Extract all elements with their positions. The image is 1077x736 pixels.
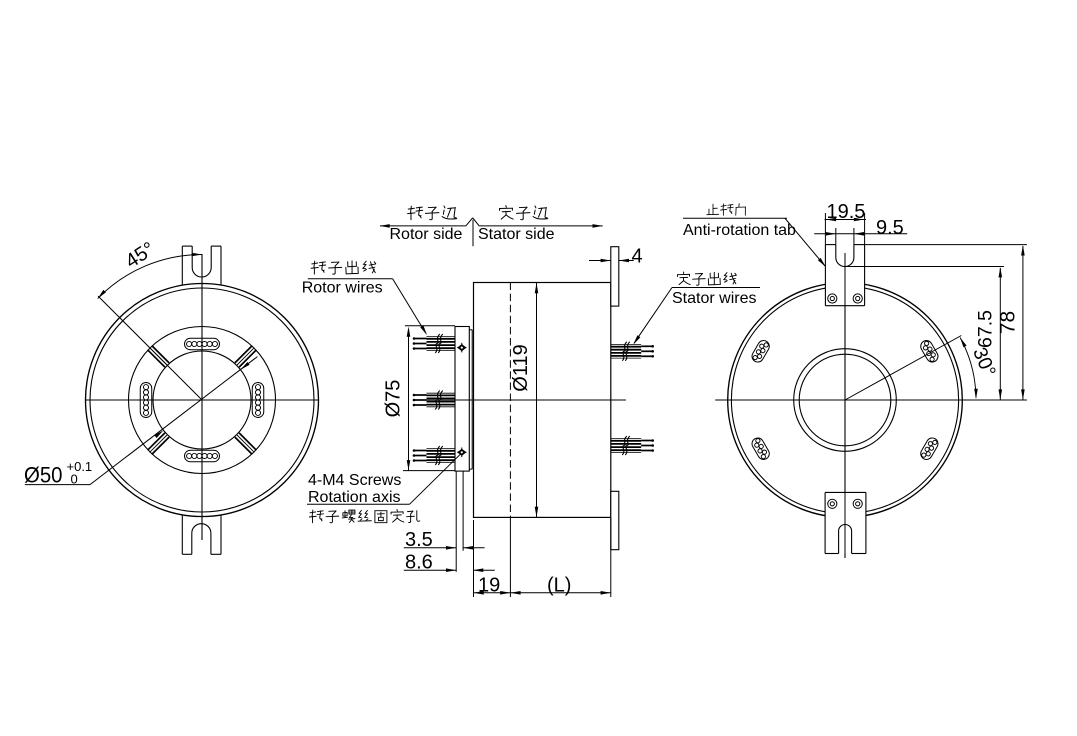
rotor-view wire slot right xyxy=(252,383,264,418)
rotor-view bore circle Ø50 xyxy=(153,351,251,449)
rotor-view wire slot left xyxy=(140,383,152,418)
svg-text:(L): (L) xyxy=(547,575,571,597)
rotor wire bundle top xyxy=(413,334,455,353)
svg-text:30°: 30° xyxy=(968,344,1000,380)
stator-view wire slot at 210 deg xyxy=(750,436,771,462)
stator-view bore circle inner xyxy=(799,354,891,446)
svg-text:3.5: 3.5 xyxy=(405,529,433,551)
svg-text:Ø50: Ø50 xyxy=(24,463,63,488)
rotor-view outer circle inner edge xyxy=(90,288,314,512)
dimension 9.5 xyxy=(814,228,907,245)
M4 screw symbol lower xyxy=(457,448,466,458)
svg-text:4-M4 Screws: 4-M4 Screws xyxy=(308,472,401,489)
dimension (L) xyxy=(510,592,610,594)
rotor-view M4 screw slot marks at 315 deg xyxy=(235,433,257,455)
svg-text:Rotor wires: Rotor wires xyxy=(302,279,383,296)
svg-text:0: 0 xyxy=(71,472,78,487)
rotor-view vertical centerline xyxy=(201,254,203,540)
section-view stator body Ø119 xyxy=(474,283,611,518)
rotor-view wire slot top xyxy=(185,338,220,350)
dimension Ø75 line xyxy=(408,329,410,471)
dimension Ø75 extension lines xyxy=(403,326,455,471)
stator-view anti-rotation tab bottom xyxy=(825,492,866,558)
section-view anti-rotation tab top xyxy=(611,247,619,306)
dimension 30deg radial line xyxy=(845,336,961,401)
dimension 8.6 xyxy=(404,569,495,571)
svg-text:Stator side: Stator side xyxy=(478,226,555,243)
M4 screw symbol upper xyxy=(457,343,466,353)
svg-text:9.5: 9.5 xyxy=(876,217,904,239)
label stator-wires chinese xyxy=(678,272,737,285)
section-view bore dashed line xyxy=(509,283,511,518)
dimension 45deg radial line xyxy=(98,296,202,400)
svg-text:Ø119: Ø119 xyxy=(510,344,532,391)
rotor-view horizontal centerline xyxy=(86,399,319,401)
svg-text:Rotation axis: Rotation axis xyxy=(308,489,401,506)
stator-view vertical centerline xyxy=(844,253,846,558)
rotor-view bottom mounting tab xyxy=(182,515,221,555)
rotor-view rotor flange circle Ø75 xyxy=(129,327,276,474)
rotor-view M4 screw slot marks at 45 deg xyxy=(235,346,257,368)
dimension 67.5 xyxy=(846,267,1004,401)
stator-view wire slot at 30 deg xyxy=(919,338,940,364)
stator-view wire slot at 150 deg xyxy=(750,338,771,364)
stator-view horizontal centerline xyxy=(715,399,1027,401)
rotor-view wire slot bottom xyxy=(185,450,220,462)
svg-text:19.5: 19.5 xyxy=(827,201,866,223)
svg-text:Anti-rotation tab: Anti-rotation tab xyxy=(683,222,796,239)
svg-text:19: 19 xyxy=(478,575,500,597)
svg-text:Ø75: Ø75 xyxy=(383,380,405,418)
dimension 78 xyxy=(865,245,1027,400)
stator-view bore circle outer xyxy=(794,349,897,452)
section-view spacer plate xyxy=(469,330,472,469)
svg-text:Rotor side: Rotor side xyxy=(390,226,463,243)
stator-view wire slot at 330 deg xyxy=(919,436,940,462)
leader stator wires xyxy=(634,288,672,344)
dimension Ø50 leader line xyxy=(90,357,257,485)
leader rotation axis xyxy=(410,454,461,504)
dimension 19 xyxy=(474,592,511,594)
svg-text:Stator wires: Stator wires xyxy=(672,290,756,307)
label rotor-screw-holes chinese xyxy=(309,510,419,523)
rotor/stator side arrow line xyxy=(380,218,603,247)
dimension 19.5 xyxy=(825,213,866,245)
label rotor-wires chinese xyxy=(311,261,376,274)
leader anti-rotation tab xyxy=(785,218,825,266)
stator wire bundle top xyxy=(611,342,654,361)
rotor-view M4 screw slot marks at 135 deg xyxy=(148,346,170,368)
stator-view anti-rotation tab top xyxy=(825,245,864,306)
section-view rotor flange plate xyxy=(455,327,469,472)
section-view anti-rotation tab bottom xyxy=(611,491,619,549)
rotor wire bundle bottom xyxy=(413,446,455,465)
svg-text:67.5: 67.5 xyxy=(975,310,997,348)
svg-text:45°: 45° xyxy=(122,238,159,273)
extension lines below body xyxy=(474,517,611,597)
dimension 30deg arc xyxy=(960,338,976,398)
label anti-rotation chinese xyxy=(707,204,746,216)
stator-view outer circle xyxy=(728,283,963,518)
rotor wire bundle middle xyxy=(413,391,455,410)
section-view horizontal centerline xyxy=(413,399,626,401)
label stator-side chinese xyxy=(500,206,548,220)
stator-view outer circle inner edge xyxy=(731,286,958,513)
rotor-view M4 screw slot marks at 225 deg xyxy=(148,433,170,455)
dimension Ø119 line xyxy=(536,283,538,517)
svg-text:4: 4 xyxy=(632,246,643,268)
dimension 3.5 xyxy=(404,547,485,549)
dimension 45deg arc xyxy=(98,255,202,299)
leader rotor wires xyxy=(308,278,393,280)
section-view rotor hub extension lines xyxy=(456,471,463,572)
stator wire bundle bottom xyxy=(611,436,654,455)
svg-text:78: 78 xyxy=(997,311,1020,334)
dimension 4 (tab thickness) xyxy=(589,260,634,262)
rotor-view top mounting tab xyxy=(182,246,221,285)
rotor-view outer circle Ø119 xyxy=(86,284,319,517)
label rotor-side chinese xyxy=(408,206,457,220)
svg-text:8.6: 8.6 xyxy=(405,552,433,574)
